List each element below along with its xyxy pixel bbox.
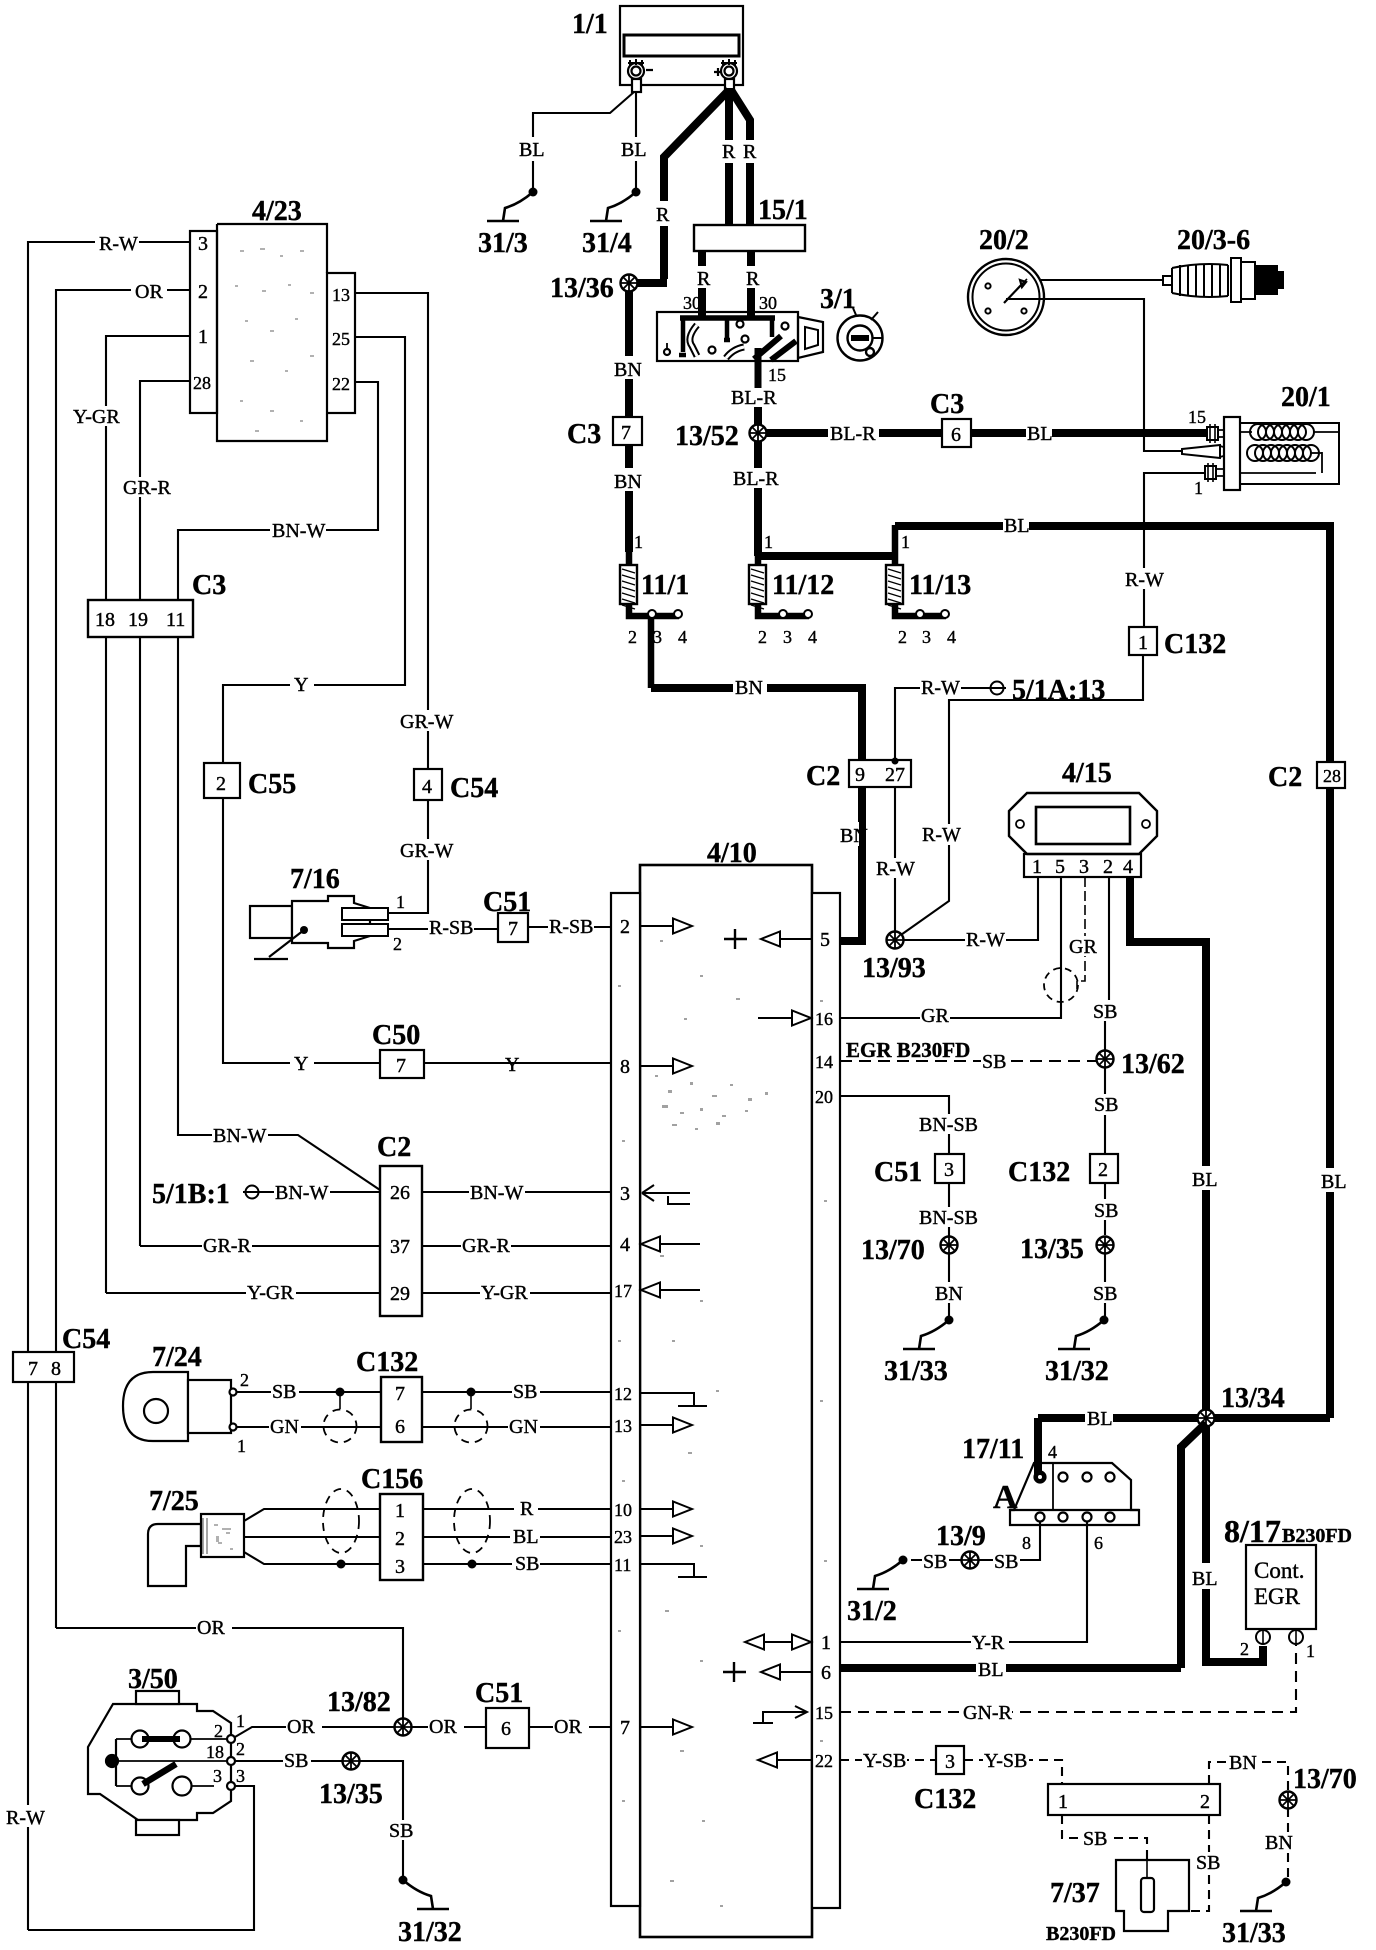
svg-text:3: 3 (236, 1766, 245, 1786)
svg-text:R-W: R-W (99, 233, 138, 255)
svg-text:20: 20 (815, 1087, 833, 1107)
terminal 5/1B:1 with wire BN-W (243, 1186, 261, 1199)
svg-text:2: 2 (214, 1721, 223, 1741)
svg-text:3: 3 (653, 627, 662, 647)
wire R-SB 7/16 pin2 to C51 (388, 928, 498, 930)
svg-text:2: 2 (628, 627, 637, 647)
svg-text:4: 4 (422, 776, 432, 798)
svg-text:BN-W: BN-W (470, 1182, 523, 1204)
connector C55 pin 2 (204, 763, 240, 798)
wire SB C132-7 to ECU pin 12 (422, 1391, 611, 1393)
svg-text:SB: SB (1094, 1200, 1118, 1222)
svg-text:BL: BL (1004, 515, 1030, 537)
svg-text:3: 3 (945, 1751, 955, 1773)
svg-text:2: 2 (240, 1370, 249, 1390)
power stage 4/15 (1009, 793, 1157, 877)
splice 13/34 (1198, 1410, 1215, 1427)
svg-text:13/36: 13/36 (550, 273, 614, 304)
svg-text:GR: GR (1069, 936, 1097, 958)
svg-text:14: 14 (815, 1052, 833, 1072)
svg-text:31/32: 31/32 (1045, 1356, 1109, 1387)
svg-text:GR-W: GR-W (400, 840, 453, 862)
wire OR 3/50 pin2 to 13/82 (235, 1727, 395, 1737)
ECU 4/10 right pin strip (812, 893, 840, 1908)
junction dot right on SB (467, 1388, 476, 1397)
wire OR left line to 13/82 (56, 1628, 403, 1719)
throttle switch 3/50 (88, 1691, 235, 1835)
wire SB 7/24 pin2 to C132-7 (237, 1391, 381, 1393)
svg-text:7/24: 7/24 (152, 1342, 202, 1373)
svg-text:22: 22 (815, 1751, 833, 1771)
svg-text:Y-SB: Y-SB (984, 1750, 1027, 1772)
wire OR C51-6 to ECU pin 7 (529, 1726, 611, 1728)
svg-text:6: 6 (395, 1416, 405, 1438)
splice 13/36 (629, 279, 667, 287)
svg-text:GR-R: GR-R (462, 1235, 510, 1257)
svg-text:3: 3 (944, 1159, 954, 1181)
svg-text:C51: C51 (483, 887, 531, 918)
svg-text:GN-R: GN-R (963, 1702, 1013, 1724)
svg-text:31/33: 31/33 (1222, 1918, 1286, 1949)
svg-text:4: 4 (808, 627, 817, 647)
svg-text:26: 26 (390, 1182, 410, 1204)
svg-text:BL: BL (1027, 423, 1053, 445)
svg-text:BL: BL (621, 139, 647, 161)
svg-text:C2: C2 (806, 761, 840, 792)
svg-text:OR: OR (287, 1716, 315, 1738)
svg-text:Y-R: Y-R (972, 1632, 1005, 1654)
svg-text:EGR: EGR (1254, 1584, 1301, 1609)
svg-text:GR: GR (921, 1005, 949, 1027)
svg-text:6: 6 (821, 1662, 831, 1684)
svg-text:7: 7 (396, 1055, 406, 1077)
svg-text:3: 3 (395, 1556, 405, 1578)
ground 31/2 (857, 1556, 908, 1590)
wires 7/25 to C156 (244, 1509, 380, 1564)
svg-text:13/9: 13/9 (936, 1521, 986, 1552)
svg-text:8/17: 8/17 (1224, 1513, 1281, 1549)
svg-text:3: 3 (198, 233, 208, 255)
svg-text:5: 5 (820, 929, 830, 951)
connector C51 pin 6 (486, 1708, 529, 1748)
svg-text:BL: BL (978, 1659, 1004, 1681)
injector 11/13 (895, 525, 946, 616)
wire BL thick 4/15 pin4 down to 13/34 (1130, 877, 1206, 1414)
svg-text:C2: C2 (1268, 762, 1302, 793)
svg-text:15: 15 (1188, 407, 1206, 427)
svg-text:BN: BN (614, 471, 642, 493)
svg-text:R-W: R-W (966, 929, 1005, 951)
svg-text:3/1: 3/1 (820, 284, 856, 315)
svg-text:11/12: 11/12 (772, 570, 834, 601)
svg-text:7: 7 (28, 1358, 38, 1380)
svg-text:R: R (746, 268, 760, 290)
svg-text:BL: BL (1192, 1169, 1218, 1191)
control unit 4/23 (190, 224, 355, 441)
battery 1/1 (620, 6, 743, 92)
svg-text:20/1: 20/1 (1281, 382, 1331, 413)
svg-text:R: R (722, 141, 736, 163)
splice 13/35 (1097, 1237, 1114, 1254)
svg-text:11/13: 11/13 (909, 570, 971, 601)
svg-text:BN: BN (935, 1283, 963, 1305)
svg-text:EGR B230FD: EGR B230FD (846, 1038, 970, 1062)
svg-text:16: 16 (815, 1009, 833, 1029)
svg-text:18: 18 (206, 1742, 224, 1762)
spark plug set 20/3-6 (1163, 258, 1283, 302)
shield ellipse left 7/25 (323, 1489, 359, 1553)
wire BN-SB C51-3 to 13/70 (948, 1183, 950, 1236)
svg-text:BN-W: BN-W (272, 520, 325, 542)
svg-text:8: 8 (620, 1056, 630, 1078)
gauge 20/2 (968, 259, 1044, 335)
svg-text:11: 11 (614, 1555, 631, 1575)
wire BN C3-7 down to injector 11/1 (625, 445, 633, 552)
wire GR-W C54 down to 7/16 pin 1 (388, 800, 428, 913)
svg-text:12: 12 (614, 1384, 632, 1404)
svg-text:4/15: 4/15 (1062, 758, 1112, 789)
relay box with pins 1 2 (1048, 1784, 1220, 1815)
ground 31/32 (1058, 1316, 1109, 1350)
wire gauge needle line to 20/1 middle pin (1006, 299, 1182, 451)
svg-text:13/70: 13/70 (861, 1235, 925, 1266)
connector C132 pins 7 6 (381, 1377, 422, 1442)
svg-text:C132: C132 (356, 1347, 418, 1378)
svg-text:R-W: R-W (922, 824, 961, 846)
svg-text:Y-GR: Y-GR (481, 1282, 528, 1304)
svg-text:30: 30 (759, 293, 777, 313)
ECU 4/10 left pin strip (611, 893, 640, 1906)
svg-text:C51: C51 (475, 1678, 523, 1709)
wires C156 to ECU pins 10 23 11 (423, 1509, 611, 1564)
wire BN-W C2-26 to ECU pin 3 (422, 1191, 611, 1193)
connector C3 pin 6 (942, 419, 971, 447)
wire BN 13/36 down to C3 pin 7 (625, 291, 633, 417)
svg-text:SB: SB (1083, 1828, 1107, 1850)
svg-text:OR: OR (429, 1716, 457, 1738)
wire BL-R 13/52 down to injectors (754, 441, 762, 556)
svg-text:BN: BN (840, 825, 868, 847)
wire BN 11/1 to ECU pin 5 (651, 688, 862, 941)
svg-text:10: 10 (614, 1500, 632, 1520)
connector C3 pins 18 19 11 (88, 600, 193, 637)
svg-text:BL: BL (1321, 1171, 1347, 1193)
svg-text:31/33: 31/33 (884, 1356, 948, 1387)
svg-text:C3: C3 (567, 419, 601, 450)
svg-text:C51: C51 (874, 1157, 922, 1188)
key symbol of 3/1 (838, 308, 883, 361)
shield circle right 7/24 (455, 1410, 488, 1443)
svg-text:13/70: 13/70 (1293, 1764, 1357, 1795)
svg-text:Y: Y (505, 1054, 519, 1076)
wire SB dashed relay pin1 to 7/37 (1062, 1815, 1147, 1860)
svg-text:4: 4 (1048, 1442, 1057, 1462)
svg-text:Cont.: Cont. (1254, 1558, 1304, 1583)
splice 13/70 lower (1280, 1792, 1297, 1809)
svg-text:C132: C132 (1164, 629, 1226, 660)
svg-text:13/35: 13/35 (1020, 1234, 1084, 1265)
wire 3/50 pin3 to R-W bottom line (28, 1786, 254, 1930)
svg-text:1/1: 1/1 (572, 9, 608, 40)
svg-text:2: 2 (393, 934, 402, 954)
scan noise in 4/23 (235, 248, 314, 432)
wire SB 17/11 pin 8 to 13/9 (911, 1522, 1040, 1560)
wire BL thick ECU pin6 to 13/34 jog (840, 1664, 1181, 1672)
svg-text:17/11: 17/11 (962, 1434, 1024, 1465)
wire Y 4/23 pin25 down to C55 (223, 337, 405, 763)
svg-text:SB: SB (1196, 1852, 1220, 1874)
wire BL-R switch 15 to 13/52 (754, 390, 762, 425)
svg-text:28: 28 (193, 373, 211, 393)
speed sensor 7/24 (123, 1372, 237, 1441)
wire link 11/12 pin1 to 11/13 (758, 552, 895, 560)
svg-text:37: 37 (390, 1236, 410, 1258)
svg-text:SB: SB (1093, 1283, 1117, 1305)
svg-text:29: 29 (390, 1283, 410, 1305)
terminal 5/1A:13 with wire R-W (988, 682, 1006, 695)
splice 13/9 (962, 1552, 979, 1569)
svg-text:BN-SB: BN-SB (919, 1207, 978, 1229)
wire BL 13/34 down to EGR pin 2 (1206, 1427, 1263, 1662)
wire R fuse to switch terminal 30 left (698, 251, 706, 317)
svg-text:7: 7 (508, 918, 518, 940)
svg-text:5: 5 (1055, 856, 1065, 878)
svg-text:5/1B:1: 5/1B:1 (152, 1179, 230, 1210)
svg-text:8: 8 (51, 1358, 61, 1380)
svg-text:BN-W: BN-W (213, 1125, 266, 1147)
svg-text:GR-R: GR-R (123, 477, 171, 499)
svg-text:R-W: R-W (876, 858, 915, 880)
splice 13/93 (887, 932, 904, 949)
ECU 4/10 body (640, 865, 812, 1937)
wire Y C55 down to C50 (223, 798, 380, 1063)
junction dot left on SB (336, 1388, 345, 1397)
svg-text:7: 7 (620, 1717, 630, 1739)
svg-text:GR-W: GR-W (400, 711, 453, 733)
svg-text:BN: BN (1229, 1752, 1257, 1774)
svg-text:3: 3 (783, 627, 792, 647)
shield circle on 4/15 pin5 wire (1044, 968, 1078, 1002)
wire OR 13/82 to C51-6 (412, 1726, 486, 1728)
svg-text:4: 4 (620, 1234, 630, 1256)
svg-text:2: 2 (216, 773, 226, 795)
ignition switch 3/1 (657, 312, 823, 390)
svg-text:BL-R: BL-R (731, 387, 777, 409)
svg-text:13: 13 (332, 285, 350, 305)
EGR pin 1 (1289, 1630, 1303, 1644)
wire Y-GR into C2-29 (106, 1292, 380, 1294)
connector C132 pin 3 (936, 1746, 964, 1774)
EGR controller 8/17 (1246, 1545, 1316, 1629)
svg-text:7: 7 (395, 1383, 405, 1405)
svg-text:SB: SB (994, 1551, 1018, 1573)
svg-text:Y-GR: Y-GR (73, 406, 120, 428)
resistor 7/37 (1116, 1860, 1189, 1931)
svg-text:SB: SB (272, 1381, 296, 1403)
svg-text:2: 2 (395, 1528, 405, 1550)
connector C54 pin 4 (414, 769, 442, 800)
svg-text:11/1: 11/1 (641, 570, 689, 601)
svg-text:13/34: 13/34 (1221, 1383, 1285, 1414)
connector C54 pins 7 8 (13, 1352, 74, 1382)
svg-text:1: 1 (396, 892, 405, 912)
svg-text:1: 1 (236, 1711, 245, 1731)
idle valve 17/11 (1010, 1463, 1139, 1525)
svg-text:31/2: 31/2 (847, 1596, 897, 1627)
wire R battery plus to fuse 15/1 (right) (731, 90, 750, 225)
svg-text:C132: C132 (1008, 1157, 1070, 1188)
svg-text:1: 1 (1306, 1641, 1315, 1661)
wire BL battery minus to 31/3 (533, 92, 634, 188)
svg-text:7: 7 (621, 422, 631, 444)
svg-text:9: 9 (855, 764, 865, 786)
svg-text:3/50: 3/50 (128, 1664, 178, 1695)
svg-text:SB: SB (515, 1553, 539, 1575)
wire SB dashed EGR B230FD from ECU pin 14 to 13/62 (840, 1060, 1096, 1062)
svg-text:C55: C55 (248, 769, 296, 800)
svg-text:11: 11 (166, 609, 185, 631)
svg-text:8: 8 (1022, 1533, 1031, 1553)
wire SB C132-2 to 13/35 (1104, 1183, 1106, 1235)
svg-text:6: 6 (1094, 1533, 1103, 1553)
svg-text:15: 15 (815, 1703, 833, 1723)
svg-text:R: R (697, 268, 711, 290)
connector C2 pins 9 27 (849, 760, 911, 787)
injector 11/1 (629, 552, 679, 688)
wire SB 13/35 down to ground (360, 1761, 403, 1876)
wire BL 13/34 down to 17/11 pin 4 (1034, 1418, 1042, 1474)
svg-text:R-SB: R-SB (429, 917, 473, 939)
svg-text:31/4: 31/4 (582, 228, 632, 259)
svg-text:1: 1 (237, 1436, 246, 1456)
svg-text:SB: SB (1093, 1001, 1117, 1023)
svg-text:2: 2 (1098, 1159, 1108, 1181)
svg-text:28: 28 (1323, 766, 1341, 786)
svg-text:BL: BL (519, 139, 545, 161)
svg-text:13/62: 13/62 (1121, 1049, 1185, 1080)
svg-text:OR: OR (135, 281, 163, 303)
svg-text:2: 2 (236, 1739, 245, 1759)
svg-text:C156: C156 (361, 1464, 423, 1495)
svg-text:A: A (993, 1479, 1018, 1516)
svg-text:4/10: 4/10 (707, 838, 757, 869)
wire BN-W 4/23 pin22 down-left (178, 382, 380, 1190)
svg-text:1: 1 (901, 532, 910, 552)
svg-text:BL: BL (513, 1526, 539, 1548)
ground 31/32 lower (399, 1876, 450, 1910)
svg-text:13/82: 13/82 (327, 1687, 391, 1718)
svg-text:22: 22 (332, 374, 350, 394)
wire BN-SB ECU pin20 to C51-3 (840, 1096, 949, 1154)
wire GN C132-6 to ECU pin 13 (422, 1426, 611, 1428)
junction dot left on wire 3 (337, 1560, 346, 1569)
shield circle left 7/24 (324, 1410, 357, 1443)
splice 13/35 lower (343, 1753, 360, 1770)
wire 4/15 pin5 GR to ECU pin 16 (840, 877, 1061, 1018)
splice 13/52 (750, 425, 767, 442)
ignition power stage 7/25 (148, 1514, 244, 1586)
svg-text:2: 2 (898, 627, 907, 647)
svg-text:4/23: 4/23 (252, 196, 302, 227)
wire Y C50 to ECU pin 8 (424, 1062, 611, 1064)
connector C3 pin 7 (613, 417, 642, 445)
knock sensor 7/16 (250, 896, 388, 948)
svg-text:19: 19 (128, 609, 148, 631)
wire Y-GR 4/23 pin1 down (106, 336, 190, 1293)
svg-text:13/93: 13/93 (862, 953, 926, 984)
svg-text:6: 6 (951, 424, 961, 446)
svg-text:2: 2 (620, 916, 630, 938)
wire GN 7/24 pin1 to C132-6 (237, 1426, 381, 1428)
svg-text:13/35: 13/35 (319, 1779, 383, 1810)
svg-text:31/32: 31/32 (398, 1917, 462, 1948)
svg-text:1: 1 (1138, 632, 1148, 654)
svg-text:1: 1 (821, 1632, 831, 1654)
wire BL 11/13 up to 20/1 line (895, 522, 1330, 530)
svg-text:R: R (656, 204, 670, 226)
svg-text:GN: GN (270, 1416, 299, 1438)
connector C50 pin 7 (380, 1050, 424, 1078)
wire labels R BL SB to ECU (514, 1498, 538, 1518)
wire BL 13/34 jog down to ECU pin 6 horizontal (1181, 1423, 1206, 1668)
svg-text:C3: C3 (192, 570, 226, 601)
svg-text:7/25: 7/25 (149, 1486, 199, 1517)
wire SB 3/50 pin18 to 13/35 (235, 1760, 343, 1762)
wire Y-SB dashed ECU pin22 to C132-3 (840, 1759, 936, 1761)
junction dot right on wire 3 (468, 1560, 477, 1569)
ground 31/33 (903, 1316, 954, 1350)
svg-text:BN: BN (614, 359, 642, 381)
wire BL right vertical from 11/13 link down to 13/34 (1326, 522, 1334, 1418)
svg-text:R-W: R-W (1125, 569, 1164, 591)
wire 4/15 pin3 GR dashed stub (1077, 877, 1085, 989)
svg-text:Y-GR: Y-GR (247, 1282, 294, 1304)
svg-text:R: R (743, 141, 757, 163)
svg-text:BL: BL (1192, 1568, 1218, 1590)
splice 13/82 (395, 1719, 412, 1736)
ground of 7/16 (300, 926, 308, 934)
wire BN dashed 13/70 to ground (1287, 1808, 1289, 1878)
svg-text:3: 3 (1079, 856, 1089, 878)
svg-text:BL-R: BL-R (733, 468, 779, 490)
wire BL thick horizontal at 13/34 (1038, 1414, 1330, 1422)
svg-text:OR: OR (554, 1716, 582, 1738)
svg-text:4: 4 (678, 627, 687, 647)
svg-text:20/3-6: 20/3-6 (1177, 225, 1250, 256)
svg-text:B230FD: B230FD (1046, 1923, 1116, 1945)
wire BL C3-6 to resistor 20/1 pin 15 (971, 429, 1213, 437)
svg-text:27: 27 (885, 764, 905, 786)
wire Y-GR C2-29 to ECU pin 17 (422, 1292, 611, 1294)
wire GR-W 4/23 pin13 down to C54 (355, 293, 428, 769)
svg-text:Y-SB: Y-SB (863, 1750, 906, 1772)
splice 13/70 (941, 1237, 958, 1254)
wire BN dashed relay pin2 up to 13/70 (1209, 1762, 1288, 1792)
wire GR-R C2-37 to ECU pin 4 (422, 1245, 611, 1247)
ground 31/3 (487, 188, 538, 222)
wire 4/15 pin2 SB down (1105, 877, 1109, 1154)
svg-text:BL-R: BL-R (830, 423, 876, 445)
svg-text:23: 23 (614, 1527, 632, 1547)
injector 11/12 (758, 556, 809, 616)
resistor 20/1 (1182, 417, 1339, 490)
splice 13/62 (1097, 1051, 1114, 1068)
svg-text:2: 2 (198, 281, 208, 303)
svg-text:OR: OR (197, 1617, 225, 1639)
connector C132 pin 2 (1090, 1154, 1118, 1183)
wire SB dashed relay pin2 down to 7/37 (1189, 1815, 1209, 1911)
svg-text:BN: BN (735, 677, 763, 699)
